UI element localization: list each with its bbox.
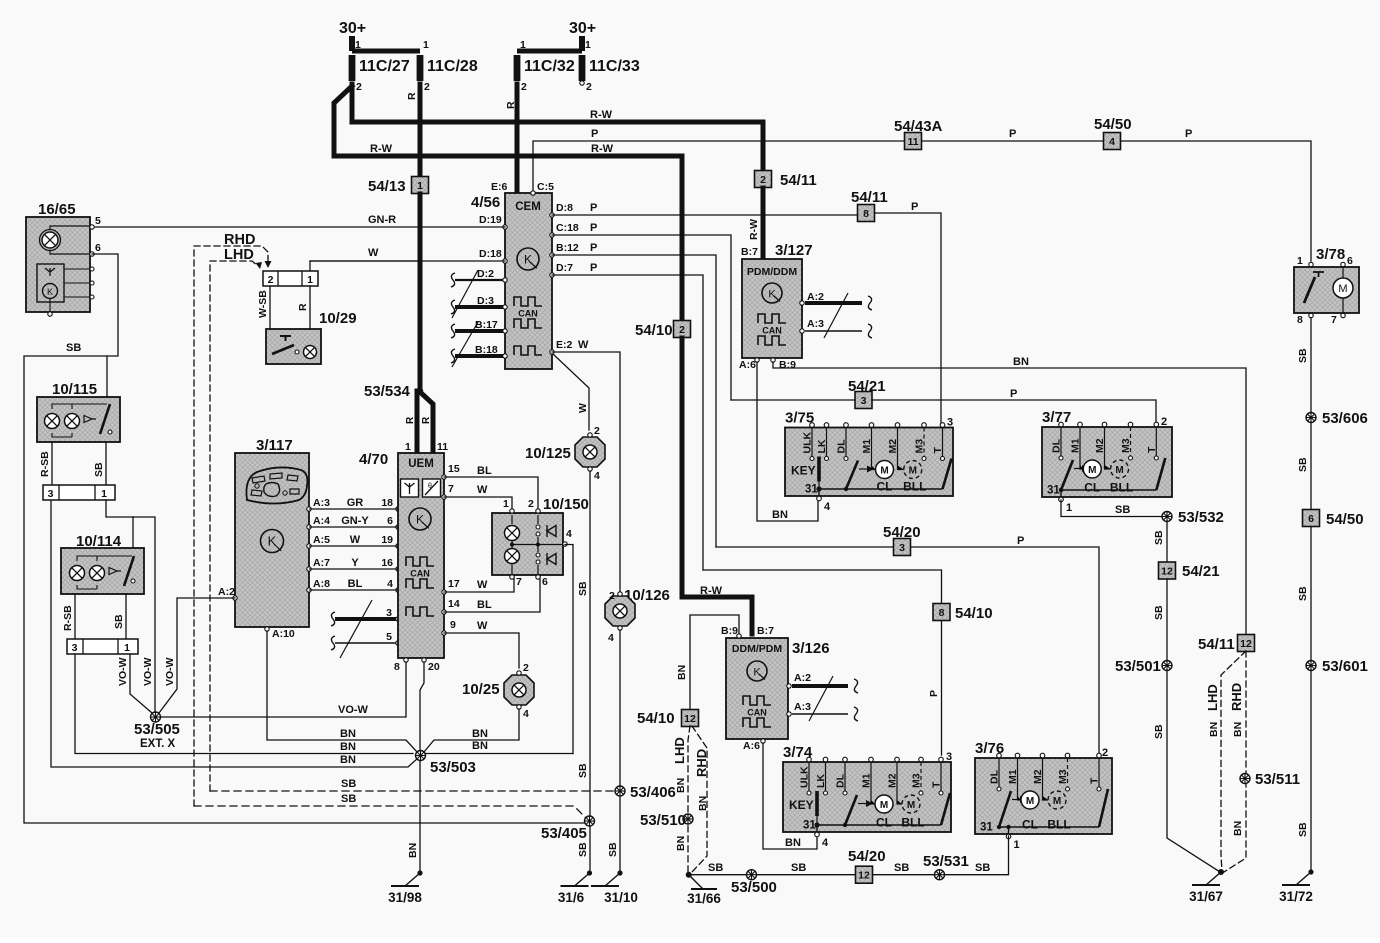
svg-text:SB: SB: [66, 342, 81, 354]
svg-text:A:2: A:2: [218, 586, 235, 598]
svg-text:11C/28: 11C/28: [427, 58, 478, 75]
svg-text:4/70: 4/70: [359, 451, 388, 468]
svg-text:M3: M3: [1057, 769, 1069, 784]
svg-text:14: 14: [448, 598, 460, 610]
wire BL UEM 15 to 10/150 pin 2: [444, 477, 538, 509]
svg-text:BN: BN: [675, 778, 687, 793]
16/65 internal wiring: [50, 226, 90, 254]
svg-text:K: K: [47, 287, 53, 297]
label P on B:12 wire: [590, 242, 597, 254]
svg-text:M: M: [1115, 465, 1123, 476]
svg-text:SB: SB: [1153, 605, 1165, 620]
wire BN from 10/25 pin 4 to splice 53/503: [424, 709, 519, 752]
svg-text:54/20: 54/20: [848, 848, 886, 865]
svg-text:2: 2: [268, 274, 274, 286]
svg-text:10/150: 10/150: [543, 496, 589, 513]
svg-text:4: 4: [824, 501, 831, 513]
svg-text:BN: BN: [1208, 722, 1220, 737]
svg-text:11: 11: [437, 441, 448, 453]
svg-text:BN: BN: [1232, 722, 1244, 737]
svg-text:BN: BN: [340, 728, 356, 740]
wire P to 54/10-8 and 3/74 pin 3: [703, 570, 942, 755]
svg-text:C:18: C:18: [556, 222, 579, 234]
wire W UEM 7 to 10/150 pin 1: [444, 497, 512, 509]
ground 31/67: [1189, 869, 1223, 904]
svg-text:A:3: A:3: [313, 497, 330, 509]
label R on fuse 11C/28 wire: [406, 92, 418, 100]
svg-text:P: P: [928, 690, 940, 697]
UEM labels: [359, 441, 448, 470]
label BN on B:9 wire: [1013, 356, 1029, 368]
connector 54/11 pin 8: [851, 189, 888, 222]
wire R-W from fuse 11C/27 to connector 54/11: [352, 84, 763, 170]
svg-text:B:12: B:12: [556, 242, 579, 254]
wire R from fuse 11C/28 down to junction 53/534: [418, 84, 423, 388]
svg-text:CEM: CEM: [515, 201, 541, 213]
wire R-W from fuse 11C/27 to connector 54/10: [334, 86, 682, 320]
UEM right pins: [442, 463, 460, 635]
svg-text:SB: SB: [607, 842, 619, 857]
svg-text:BL: BL: [348, 578, 363, 590]
ground 31/98: [388, 870, 422, 905]
svg-text:1: 1: [503, 498, 509, 510]
16/65 label: [38, 201, 76, 218]
svg-text:53/505: 53/505: [134, 721, 180, 738]
svg-text:K: K: [768, 289, 776, 301]
wire SB bus from 31/66 junction to 3/76 pin 1: [689, 836, 1009, 875]
svg-text:4/56: 4/56: [471, 194, 500, 211]
wire W-SB connector to 10/29: [269, 286, 271, 329]
svg-text:3: 3: [48, 488, 54, 500]
svg-text:53/534: 53/534: [364, 383, 411, 400]
svg-text:T: T: [932, 447, 944, 454]
UEM bottom pins 8 and 20: [394, 658, 440, 673]
svg-text:3: 3: [861, 395, 867, 407]
16/65 lamp symbol: [40, 230, 61, 251]
wire P from 54/11-8 to 3/75 pin 3: [875, 213, 941, 424]
svg-text:8: 8: [394, 661, 400, 673]
wire W UEM 9 to 10/25 pin 2: [444, 633, 519, 668]
wire R to UEM pin 1: [415, 391, 420, 450]
svg-text:54/10: 54/10: [955, 605, 993, 622]
svg-text:ULK: ULK: [802, 432, 814, 454]
control module UEM 4/70 box: [398, 453, 444, 658]
label SB rotated right col: [1297, 586, 1309, 601]
svg-text:P: P: [1009, 128, 1016, 140]
svg-text:BN: BN: [1232, 821, 1244, 836]
label P on D:8 wire: [590, 202, 597, 214]
label P top middle: [1009, 128, 1016, 140]
wire W from E:2 to 10/126: [552, 352, 620, 592]
svg-text:P: P: [590, 262, 597, 274]
wire W from E:2 to 10/125: [553, 354, 589, 430]
svg-text:VO-W: VO-W: [164, 657, 176, 686]
svg-text:SB: SB: [341, 793, 356, 805]
module 16/65 box: [26, 217, 90, 312]
connector 54/11 pin 12: [1198, 635, 1255, 654]
svg-text:PDM/DDM: PDM/DDM: [747, 266, 797, 278]
svg-text:R-W: R-W: [748, 219, 760, 240]
svg-text:4: 4: [523, 708, 529, 720]
svg-text:SB: SB: [708, 862, 723, 874]
svg-text:2: 2: [356, 81, 362, 93]
label VO-W left: [117, 657, 129, 686]
junction 53/534: [364, 383, 423, 400]
svg-text:3/77: 3/77: [1042, 409, 1071, 426]
label BL 15: [477, 465, 492, 477]
svg-text:UEM: UEM: [408, 458, 434, 470]
svg-text:RHD: RHD: [1229, 683, 1244, 711]
svg-text:P: P: [590, 242, 597, 254]
svg-text:M: M: [909, 466, 917, 477]
svg-text:53/532: 53/532: [1178, 509, 1224, 526]
label VO-W on UEM 8 wire: [338, 704, 369, 716]
svg-text:P: P: [590, 202, 597, 214]
svg-text:GR: GR: [347, 497, 364, 509]
BN labels left of 53/503: [340, 728, 356, 766]
svg-text:BL: BL: [477, 599, 492, 611]
wire R-W from 54/11 to PDM 3/127 B:7: [761, 188, 766, 257]
label P top right: [1185, 128, 1192, 140]
svg-text:W: W: [477, 620, 488, 632]
svg-text:M: M: [1053, 796, 1061, 807]
svg-text:M1: M1: [1070, 438, 1082, 453]
svg-text:LK: LK: [816, 439, 828, 453]
dashed wire SB to splice 53/406: [210, 790, 616, 792]
10/150 label: [543, 496, 589, 513]
svg-text:54/11: 54/11: [780, 172, 817, 189]
svg-text:R: R: [405, 416, 416, 424]
label R on UEM pin 11 wire: [421, 416, 432, 424]
door lock unit 3/76: [975, 740, 1112, 851]
control panel 3/117 box: [235, 453, 309, 627]
ground 31/10: [591, 870, 638, 905]
svg-text:2: 2: [528, 498, 534, 510]
label P rotated on 3/74 pin 3 wire: [928, 690, 940, 697]
svg-text:54/50: 54/50: [1326, 511, 1364, 528]
label R-W lower: [370, 143, 393, 155]
svg-text:BN: BN: [676, 665, 688, 680]
10/114 lamps and switch: [70, 556, 136, 589]
UEM antenna and sensor boxes: [401, 479, 441, 497]
svg-text:VO-W: VO-W: [338, 704, 369, 716]
label BN rotated on 31/98 wire: [407, 843, 419, 858]
door lock unit 3/74: [783, 744, 952, 849]
svg-text:R: R: [421, 416, 432, 424]
svg-text:SB: SB: [1153, 530, 1165, 545]
svg-text:54/21: 54/21: [1182, 563, 1220, 580]
svg-text:A:7: A:7: [313, 557, 330, 569]
svg-text:A:4: A:4: [313, 515, 330, 527]
svg-text:DDM/PDM: DDM/PDM: [732, 643, 782, 655]
svg-text:LHD: LHD: [1205, 684, 1220, 711]
ground junction 31/67 dot: [1218, 869, 1224, 875]
svg-text:R-W: R-W: [700, 585, 723, 597]
wire GN-Y from 3/117 A:4 to UEM pin 6: [307, 515, 400, 529]
svg-text:10/115: 10/115: [52, 381, 97, 398]
CEM pin B:18 stub: [451, 344, 507, 363]
label BN on 3/75 pin 4 wire: [772, 509, 788, 521]
fuse 11C/33: [579, 55, 640, 93]
svg-text:11C/32: 11C/32: [524, 58, 575, 75]
label P on C:18 wire: [590, 222, 597, 234]
svg-text:8: 8: [1297, 314, 1303, 326]
wire R-SB 10/115 to connector: [51, 442, 53, 485]
connector 54/21 pin 12: [1159, 562, 1220, 580]
svg-text:D:19: D:19: [479, 214, 502, 226]
label BL 14: [477, 599, 492, 611]
svg-text:P: P: [1185, 128, 1192, 140]
10/29 switch and lamp: [272, 336, 317, 359]
label BN rotated right RHD: [1232, 722, 1244, 737]
power 30+ right terminal: [569, 20, 596, 51]
lamp 10/125: [525, 425, 605, 482]
wire R-SB 10/114 to connector: [74, 594, 76, 639]
CEM pin B:12 P wire: [550, 242, 579, 257]
wire R from fuse 11C/32 to CEM E:6: [515, 84, 520, 193]
wire SB from 10/125 pin 4 to ground 31/6: [589, 471, 591, 870]
svg-text:GN-Y: GN-Y: [341, 515, 369, 527]
svg-text:1: 1: [101, 488, 107, 500]
wire to splice 53/505 middle: [133, 517, 155, 712]
dashed LHD wire to ground junction: [688, 726, 690, 875]
svg-text:D:8: D:8: [556, 202, 573, 214]
svg-text:K: K: [753, 667, 761, 679]
wire BN from 3/126 B:9 to connector 54/10-12: [690, 615, 739, 710]
svg-text:31/72: 31/72: [1279, 889, 1313, 904]
wire R-W from 54/10 down to DDM 3/126 B:7: [682, 338, 752, 634]
wire P from D:8: [552, 214, 866, 216]
3/78 labels and pins: [1297, 246, 1353, 326]
svg-text:54/21: 54/21: [848, 378, 886, 395]
label VO-W middle: [142, 657, 154, 686]
svg-text:SB: SB: [577, 763, 589, 778]
wire from connector pin 3 to splice 53/503: [51, 500, 418, 767]
svg-text:4: 4: [1109, 136, 1115, 148]
svg-text:KEY: KEY: [789, 798, 814, 812]
svg-text:W: W: [577, 403, 589, 413]
label SB bus 4: [975, 862, 990, 874]
svg-text:16/65: 16/65: [38, 201, 76, 218]
svg-text:θ: θ: [428, 483, 432, 490]
wire R from 54/13 to UEM: [418, 194, 423, 388]
label BN rotated RHD path: [697, 796, 709, 811]
svg-text:KEY: KEY: [791, 464, 816, 478]
3/127 CAN symbol: [758, 314, 786, 345]
svg-text:D:2: D:2: [477, 268, 494, 280]
wire SB from 53/532 down to ground 31/67: [1167, 521, 1220, 872]
control module CEM 4/56 box: [505, 193, 552, 369]
door module master 3/126 DDM/PDM box: [726, 638, 788, 739]
label LHD rotated: [672, 737, 687, 764]
svg-text:K: K: [416, 513, 424, 527]
svg-text:LHD: LHD: [672, 737, 687, 764]
3/117 label: [256, 437, 293, 454]
label W-SB rotated: [257, 290, 269, 318]
svg-text:3/117: 3/117: [256, 437, 293, 454]
svg-text:10/125: 10/125: [525, 445, 571, 462]
wire to 10/114 switch: [132, 517, 134, 548]
label W on D:18 wire: [368, 247, 379, 259]
svg-text:CL: CL: [1022, 818, 1038, 832]
10/115 lamps and switch: [45, 404, 113, 437]
svg-text:2: 2: [594, 425, 600, 437]
lamp unit 10/115 box: [37, 397, 120, 442]
CEM pin D:19 with GN-R wire from 16/65 pin 5: [479, 214, 507, 229]
svg-text:LHD: LHD: [224, 247, 254, 263]
ground 31/6: [558, 870, 592, 905]
svg-text:A:2: A:2: [794, 672, 811, 684]
wire VO-W from A:2 to splice 53/505: [159, 598, 235, 713]
BN labels right of 53/503: [472, 728, 488, 752]
svg-text:A:6: A:6: [743, 740, 760, 752]
label W 17: [477, 579, 488, 591]
svg-text:CAN: CAN: [410, 569, 430, 579]
svg-text:8: 8: [863, 208, 869, 220]
svg-text:P: P: [911, 201, 918, 213]
wire VO-W left into splice 53/505: [130, 654, 152, 713]
wire BN from 3/127 A:6 to 3/75 pin 4: [757, 362, 818, 521]
svg-text:K: K: [524, 253, 532, 267]
label RHD rotated: [694, 749, 709, 777]
label BN on 3/74 pin 4 wire: [785, 837, 801, 849]
splice 53/405: [541, 816, 595, 842]
10/150 pins: [503, 498, 572, 588]
svg-text:P: P: [1010, 388, 1017, 400]
svg-text:W: W: [477, 484, 488, 496]
svg-text:SB: SB: [1297, 348, 1309, 363]
svg-text:E:6: E:6: [491, 181, 508, 193]
svg-text:M: M: [1026, 796, 1034, 807]
svg-text:31: 31: [803, 820, 816, 832]
label P on 54/21 wire: [1010, 388, 1017, 400]
svg-text:4: 4: [608, 632, 614, 644]
label SB rotated 3/78 mid: [1297, 457, 1309, 472]
svg-text:B:7: B:7: [741, 246, 758, 258]
wire W from 3/117 A:5 to UEM pin 19: [307, 534, 400, 548]
connector 2-1 above 10/29: [263, 271, 318, 286]
svg-text:BL: BL: [477, 465, 492, 477]
wire P from 54/21 to 3/77 pin 2: [731, 400, 1156, 422]
connector 54/43A pin 11: [894, 118, 943, 150]
3/126 pin A:2 stub: [787, 672, 858, 693]
svg-text:30+: 30+: [339, 20, 366, 37]
wire W UEM 17 to 10/150 pin 7: [444, 575, 514, 592]
wire BN from 3/127 B:9 to connector 54/11-12: [773, 362, 1246, 635]
splice 53/501: [1115, 658, 1172, 675]
label BN rotated on B:9 wire: [676, 665, 688, 680]
svg-text:54/10: 54/10: [637, 710, 675, 727]
wire 30+ left to fuses 11C/27 11C/28: [352, 39, 429, 51]
svg-text:7: 7: [516, 576, 522, 588]
svg-text:B:9: B:9: [779, 359, 796, 371]
svg-text:BN: BN: [340, 754, 356, 766]
svg-text:2: 2: [1102, 747, 1108, 759]
label LHD: [224, 247, 254, 263]
label SB rotated 3/78 upper: [1297, 348, 1309, 363]
svg-text:31/98: 31/98: [388, 890, 422, 905]
label SB rotated on 31/67 wire upper: [1153, 605, 1165, 620]
svg-text:W: W: [477, 579, 488, 591]
splice 53/601: [1306, 658, 1368, 675]
3/126 A:2 A:3 slash: [809, 676, 833, 721]
label SB rotated on 31/67 wire lower: [1153, 724, 1165, 739]
wire W to CEM D:18: [310, 260, 505, 262]
UEM pin 5 stub: [331, 631, 400, 650]
motor unit 3/78 box: [1294, 267, 1359, 313]
label R-W near 3/126: [700, 585, 723, 597]
wire BN UEM 20 to ground 31/98: [420, 662, 424, 870]
svg-text:31: 31: [1047, 485, 1060, 497]
svg-text:16: 16: [381, 557, 393, 569]
wire W from connector pin 1 to CEM D:18 run: [310, 261, 417, 271]
svg-text:12: 12: [684, 713, 696, 725]
svg-text:1: 1: [355, 39, 361, 51]
svg-text:A:6: A:6: [739, 359, 756, 371]
svg-text:6: 6: [542, 576, 548, 588]
wire SB from connector pin 1: [106, 500, 133, 517]
svg-text:53/501: 53/501: [1115, 658, 1161, 675]
svg-text:7: 7: [1331, 314, 1337, 326]
svg-text:BN: BN: [772, 509, 788, 521]
svg-text:BN: BN: [472, 728, 488, 740]
label P on D:7 wire: [590, 262, 597, 274]
splice 53/500: [731, 870, 777, 896]
svg-text:DL: DL: [835, 773, 847, 788]
splice 53/532: [1162, 509, 1224, 526]
splice 53/511: [1240, 771, 1300, 788]
svg-text:10/25: 10/25: [462, 681, 500, 698]
svg-text:M1: M1: [861, 439, 873, 454]
svg-text:DL: DL: [1051, 438, 1063, 453]
connector 3-1 upper: [43, 485, 115, 500]
svg-text:2: 2: [424, 81, 430, 93]
wire SB from 16/65 pin 6 to splice 53/405: [24, 254, 585, 823]
svg-text:A:3: A:3: [807, 318, 824, 330]
UEM pin 3/5 slash: [340, 600, 372, 658]
wire P from C:18 to 54/21: [552, 235, 731, 400]
splice 53/606: [1306, 410, 1368, 427]
svg-text:53/531: 53/531: [923, 853, 969, 870]
svg-text:4: 4: [822, 837, 829, 849]
svg-text:R: R: [297, 303, 309, 311]
svg-text:4: 4: [387, 578, 393, 590]
svg-text:CL: CL: [877, 480, 893, 494]
splice 53/503: [416, 751, 476, 777]
label SB bus 3: [894, 862, 909, 874]
svg-text:M2: M2: [1094, 438, 1106, 453]
svg-text:5: 5: [95, 215, 101, 227]
label R on UEM pin 1 wire: [405, 416, 416, 424]
svg-text:SB: SB: [1297, 457, 1309, 472]
svg-text:20: 20: [428, 661, 440, 673]
svg-text:54/20: 54/20: [883, 524, 921, 541]
svg-text:M: M: [880, 466, 888, 477]
svg-text:SB: SB: [1297, 822, 1309, 837]
svg-text:D:7: D:7: [556, 262, 573, 274]
UEM K symbol: [409, 508, 431, 530]
svg-text:A:3: A:3: [794, 701, 811, 713]
svg-text:2: 2: [523, 662, 529, 674]
CEM K symbol: [517, 248, 539, 270]
3/117 K symbol: [261, 530, 284, 553]
wire 30+ right to fuses 11C/32 11C/33: [517, 39, 591, 51]
label R-W lower second: [591, 143, 614, 155]
svg-text:31: 31: [980, 822, 993, 834]
svg-text:1: 1: [405, 441, 411, 453]
wire BN from A:10 to splice 53/503: [267, 631, 417, 752]
CEM pin D:3 stub: [451, 295, 507, 314]
